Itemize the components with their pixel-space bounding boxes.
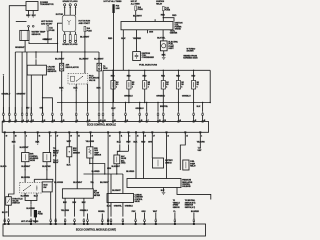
wire crank output 2 (42, 75, 43, 113)
svg-text:11: 11 (121, 135, 123, 137)
svg-text:SENSOR: SENSOR (173, 207, 181, 209)
wire box pin tach (157, 29, 178, 41)
wire BLK/WHT long 108 (100, 132, 110, 222)
svg-text:YEL/GRN: YEL/GRN (86, 141, 95, 143)
svg-text:FUSE: FUSE (165, 9, 171, 11)
ignition relay label (156, 1, 165, 5)
wire connector box ground BLK (97, 71, 102, 103)
svg-text:BLU/WHT: BLU/WHT (55, 58, 65, 60)
connector module pin x193.6 (193, 103, 195, 122)
connector module pin x178.4 (178, 103, 180, 122)
wire relay down RED (161, 11, 166, 22)
wire afm feed YEL (90, 158, 95, 189)
svg-text:ALL TIMES: ALL TIMES (131, 2, 141, 5)
connector module pin x158 (157, 103, 159, 122)
power feed HOT AT ALL TIMES right (131, 0, 141, 5)
connector module pin x31.3 (30, 107, 32, 122)
wire EGR output (21, 162, 31, 183)
svg-text:RED: RED (172, 15, 177, 17)
svg-text:BLU/GRN: BLU/GRN (54, 182, 63, 184)
wire left fuse down (42, 31, 52, 44)
svg-text:19: 19 (70, 135, 72, 137)
svg-text:SENSOR: SENSOR (94, 155, 102, 157)
connector module pin x52.4 (52, 102, 54, 122)
svg-text:BLU/RED: BLU/RED (191, 211, 200, 213)
wire injector bus left end (102, 70, 104, 102)
power feed left HOT IN RUN AND START (41, 21, 53, 25)
svg-text:SPARK PLUGS: SPARK PLUGS (63, 0, 79, 3)
label GRN/BLU pin (135, 108, 144, 110)
connector module pin x3.4 (3, 107, 5, 122)
wire afm out 2 (72, 198, 76, 216)
wire canister out 1 (107, 203, 123, 217)
spark plugs bottom label (62, 43, 78, 46)
wire fuse to box BLK/WHT (133, 11, 143, 22)
wire canister out 2 (123, 203, 134, 217)
svg-text:18: 18 (15, 135, 17, 137)
label BLU/WHT under bus 2 (79, 58, 89, 60)
svg-text:BLK: BLK (73, 87, 78, 89)
svg-text:INJ: INJ (166, 82, 168, 84)
spark plug top 1 (64, 4, 66, 16)
wire distributor feed (57, 23, 63, 52)
svg-text:METER: METER (94, 195, 101, 197)
wire afm BLU/GRN long (54, 132, 63, 222)
connector module pin x113 (112, 103, 114, 122)
exh gas sensor (67, 147, 81, 157)
svg-text:SPARK PLUGS: SPARK PLUGS (62, 43, 78, 46)
svg-text:AND START: AND START (41, 22, 53, 25)
svg-text:BLU/WHT: BLU/WHT (73, 182, 83, 184)
svg-text:TRANSISTOR: TRANSISTOR (40, 3, 54, 6)
wire pr feed 143 (107, 132, 146, 178)
wire stub 102 (98, 211, 106, 219)
svg-text:TRANS: TRANS (175, 28, 182, 31)
connector module pin x76.2 (75, 103, 77, 122)
spark plug bottom 3 (75, 32, 77, 43)
label BLU/WHT under bus 1 (55, 58, 65, 60)
connector module pin x202.6 (202, 103, 204, 122)
wire canister feeds (111, 174, 123, 194)
ignition coil unit box (121, 22, 173, 30)
sensor crank angle sensor (27, 65, 57, 75)
fuel injector 6 (191, 70, 199, 102)
svg-text:RED: RED (108, 38, 113, 40)
svg-text:FUSE: FUSE (138, 9, 144, 11)
label GN (40, 108, 43, 110)
distributor (56, 14, 76, 32)
connector module pin x15.3 (14, 107, 16, 122)
svg-text:HOT AT ALL TIMES: HOT AT ALL TIMES (104, 0, 123, 3)
svg-text:BLU: BLU (34, 196, 39, 198)
fuel injector 1 (111, 70, 119, 102)
svg-text:SWITCH: SWITCH (12, 203, 20, 205)
connector module pin x42.6 (42, 107, 44, 122)
svg-text:GRN/YEL: GRN/YEL (114, 206, 123, 208)
svg-text:FUSE: FUSE (38, 214, 44, 216)
wire BLK/GRN long left (0, 132, 8, 222)
svg-text:ECCS CONTROL MODULE (CONT): ECCS CONTROL MODULE (CONT) (76, 227, 116, 231)
svg-text:GRN/EL: GRN/EL (98, 211, 106, 213)
connector box right (97, 63, 102, 71)
fuse 15A top (135, 6, 144, 11)
electric fuel pump (160, 41, 178, 51)
svg-text:GRN/BLU: GRN/BLU (124, 95, 133, 97)
svg-text:INJ: INJ (181, 82, 183, 84)
wire injector bus (103, 70, 210, 71)
svg-text:BLK: BLK (117, 141, 122, 143)
wire fuel pump ground BLK (162, 51, 167, 57)
svg-text:29: 29 (91, 135, 93, 137)
wire left vertical 5 (26, 52, 28, 113)
svg-text:BLK/WHT: BLK/WHT (112, 190, 121, 192)
ECCS control module cont (3, 224, 206, 236)
wire stub 144 (141, 211, 146, 219)
wire pin 200 TC unit (197, 132, 206, 152)
spark plug top 3 (75, 4, 77, 16)
svg-text:BLK: BLK (35, 141, 40, 143)
wire pin EGR 1 (20, 132, 30, 152)
connector module pin x103 (102, 103, 104, 122)
connector module pin x22.1 (21, 107, 23, 122)
svg-text:GRN/BLU: GRN/BLU (80, 210, 89, 212)
wire ignition bus (15, 51, 99, 52)
svg-text:21: 21 (167, 135, 169, 137)
svg-text:BLK: BLK (67, 165, 72, 167)
wire stub 193 (191, 211, 200, 219)
wire injector bus right end (209, 70, 211, 102)
svg-text:BLK/WHT: BLK/WHT (20, 147, 30, 149)
svg-text:GRN/BLU: GRN/BLU (182, 95, 191, 97)
label GRN/BLU 2 (156, 95, 165, 97)
wire stub 87 (87, 214, 89, 219)
svg-text:FUSE: FUSE (49, 30, 55, 32)
exh gas temp sensor (87, 147, 102, 158)
svg-text:SENSOR: SENSOR (47, 71, 56, 73)
battery relay box (153, 158, 174, 168)
connector module pin x139.7 (139, 103, 141, 122)
svg-text:BLK: BLK (162, 54, 167, 56)
wire air regulator feed (61, 52, 63, 63)
wire stub top (16, 21, 27, 23)
wire crank branch right (43, 98, 53, 102)
svg-text:ECCS CONTROL MODULE: ECCS CONTROL MODULE (87, 124, 116, 127)
connector module pin x61.7 (61, 103, 63, 122)
fuel injector 5 (176, 70, 184, 102)
wire crank output 1 (30, 75, 32, 113)
FICD inner symbol (71, 76, 83, 81)
svg-text:CONDENSER: CONDENSER (142, 57, 155, 59)
fuse left 15A (47, 26, 55, 32)
svg-text:BLU/WHT: BLU/WHT (79, 58, 89, 60)
wire pr feed 136 (133, 132, 138, 178)
wire bus left drop (14, 52, 16, 113)
connector module pin x26.9 (26, 107, 28, 122)
wire GRN branch (29, 39, 58, 44)
note to vehicle speed sensor (173, 200, 181, 209)
svg-text:ROTOR: ROTOR (56, 14, 64, 16)
connector module pin x125.5 (125, 103, 127, 122)
svg-text:VALVE: VALVE (89, 79, 96, 82)
wire stub 155 (153, 211, 158, 219)
svg-text:SOLENOID: SOLENOID (182, 186, 191, 188)
wire pr ground BLK (161, 188, 165, 193)
air regulator (60, 63, 79, 71)
svg-text:GRN/BLU: GRN/BLU (125, 206, 134, 208)
wire relay branch (163, 15, 177, 21)
svg-text:10: 10 (6, 135, 8, 137)
fusible link bottom (34, 210, 44, 217)
svg-text:GRN/BLU: GRN/BLU (1, 94, 10, 96)
svg-text:BLU/RED: BLU/RED (126, 171, 135, 173)
svg-text:GRN: GRN (107, 168, 112, 170)
wire pin 128 down (117, 132, 131, 151)
svg-text:BLK: BLK (97, 87, 102, 89)
wire right fuse down BLU/WHT (80, 32, 90, 74)
wire throttle feed horizontal (34, 179, 53, 183)
label BLK/WHT canister (112, 190, 121, 192)
note turbo (187, 48, 196, 52)
wire box pin to condenser (133, 30, 142, 52)
fuse ignition relay (162, 6, 170, 11)
bottom module pin squares (4, 223, 195, 224)
svg-text:15: 15 (186, 135, 188, 137)
wire stub 174 (173, 211, 176, 219)
note viewed from (183, 55, 198, 59)
wire stub 135 (132, 211, 137, 219)
svg-text:SWITCH (A T): SWITCH (A T) (185, 206, 196, 209)
svg-text:BLK/Y: BLK/Y (2, 212, 8, 214)
svg-text:SHOWN: SHOWN (187, 50, 195, 52)
wire AAC output (112, 164, 121, 174)
wire bold fuse to module (35, 217, 37, 223)
AAC valve (114, 155, 127, 165)
power label HOT AT ALL TIMES bottom (21, 220, 39, 223)
wire throttle to module (30, 206, 32, 216)
svg-text:GRN/BLU: GRN/BLU (156, 95, 165, 97)
power feed right HOT IN RUN AND START (79, 20, 91, 24)
svg-text:BLK/WHT: BLK/WHT (133, 15, 143, 17)
svg-text:BLK/WHT: BLK/WHT (100, 182, 110, 184)
wire pin BLK 14 (9, 132, 17, 196)
fuel injector 3 (143, 70, 151, 102)
fuel pump relay (183, 160, 197, 170)
svg-text:BLU/RED: BLU/RED (92, 171, 101, 173)
ground pressure regulator (162, 192, 166, 194)
svg-text:FUSE: FUSE (87, 30, 93, 32)
wire fusible link down RED (108, 13, 114, 103)
svg-text:25: 25 (144, 135, 146, 137)
fuel injector 2 (127, 70, 135, 102)
module bottom pin squares (4, 132, 201, 133)
AIV control solenoid valve (43, 153, 51, 162)
distributor inner (67, 20, 70, 25)
wire pr out right (177, 188, 211, 200)
svg-text:AND START: AND START (79, 22, 91, 25)
wire pin AIV (49, 132, 51, 152)
svg-text:16: 16 (39, 135, 41, 137)
spark plug top 2 (69, 4, 71, 16)
note tachometer left (103, 66, 108, 70)
note left column (53, 148, 60, 164)
wire air regulator ground BLK (59, 71, 64, 103)
throttle valve switch dashed box (20, 182, 42, 193)
svg-text:YEL/GRN: YEL/GRN (61, 210, 70, 212)
wire exh gas sensor ground (67, 157, 72, 167)
svg-text:GRN/WHT: GRN/WHT (15, 47, 25, 49)
wire afm feed 1 (67, 132, 72, 147)
connector transistor lead 1 (28, 25, 30, 30)
ignition coil unit text (175, 22, 184, 30)
wide box tick (154, 19, 156, 21)
svg-text:GRN/WHT: GRN/WHT (42, 39, 52, 41)
svg-text:GRN: GRN (149, 32, 154, 34)
svg-text:BLK/G: BLK/G (0, 166, 6, 168)
svg-text:ASSY: ASSY (168, 47, 174, 50)
svg-text:INJ: INJ (132, 82, 134, 84)
wire AIV output (42, 162, 51, 180)
svg-text:BLK/GRN: BLK/GRN (21, 177, 30, 179)
pin numbers module bottom (6, 134, 203, 137)
connector transistor lead 2 (32, 25, 34, 27)
svg-text:REGULATOR: REGULATOR (66, 66, 80, 69)
svg-text:GRN/WHT: GRN/WHT (16, 94, 26, 96)
label BLK pin right (197, 106, 201, 108)
wire battery box feed (148, 132, 153, 158)
wire fuel pump relay feed (180, 132, 185, 170)
svg-text:BLK/PNK: BLK/PNK (42, 166, 51, 168)
spark plugs top label (63, 0, 79, 3)
wire transistor lead BLK (32, 11, 37, 18)
label GRN/BLU 1 (124, 95, 133, 97)
svg-text:27: 27 (57, 135, 59, 137)
svg-text:55: 55 (78, 135, 80, 137)
EGR control solenoid valve (22, 153, 39, 163)
connector module pin x99 (98, 103, 100, 122)
carbon canister control solenoid valve (107, 193, 143, 203)
wire idle box down (50, 192, 52, 219)
spark plug bottom 2 (69, 32, 71, 43)
svg-text:GRN: GRN (148, 141, 153, 143)
wire power transistor to left bus (9, 6, 26, 114)
svg-text:HARNESS SIDE: HARNESS SIDE (183, 57, 198, 60)
svg-text:INJ: INJ (197, 82, 199, 84)
fuse right 15A (84, 26, 92, 32)
label BLU/WHT under bus 3 (94, 58, 104, 60)
fuel injectors label (139, 65, 158, 67)
wire pin BLK 37 (35, 132, 40, 145)
svg-text:GRN/BLU: GRN/BLU (135, 108, 144, 110)
svg-text:BRN/YEL: BRN/YEL (160, 106, 169, 108)
svg-text:23: 23 (109, 135, 111, 137)
throttle switch contacts (23, 185, 37, 191)
condenser (133, 52, 155, 61)
labels under dashed box (21, 196, 39, 198)
throttle valve switch unit (6, 197, 24, 206)
svg-text:BLK: BLK (133, 141, 138, 143)
svg-text:FUEL INJECTORS: FUEL INJECTORS (139, 65, 158, 67)
label B/U (26, 108, 30, 110)
wire crank angle sensor feed (35, 52, 37, 65)
power feed HOT AT ALL TIMES left (104, 0, 123, 3)
wire exh temp output (89, 158, 105, 174)
svg-text:INJ: INJ (148, 82, 150, 84)
note to neutral switch (185, 199, 196, 209)
svg-text:BLU/WHT: BLU/WHT (80, 37, 90, 39)
idle switch box (42, 182, 52, 192)
label GRN/BLU 3 (182, 95, 191, 97)
label BRN/YEL pin (160, 106, 169, 108)
svg-text:YEL/RED: YEL/RED (133, 38, 142, 40)
wire connector box feed (98, 52, 100, 63)
wire water temp output GRN/WHT (15, 41, 25, 53)
svg-text:SENSOR: SENSOR (32, 34, 41, 36)
svg-text:RELAY: RELAY (156, 2, 163, 5)
wire throttle unit ground (8, 205, 10, 216)
wire afm out 1 (61, 198, 70, 216)
connectors into bottom module (4, 219, 195, 225)
wire throttle outputs bracket (25, 193, 37, 210)
wire pr feed 166 (166, 132, 168, 178)
svg-text:BLK: BLK (59, 87, 64, 89)
svg-text:BLK: BLK (12, 141, 17, 143)
air flow meter (62, 189, 100, 198)
wire pin AAC (117, 132, 122, 155)
wire afm feed BLU/WHT (73, 132, 83, 189)
wire box pin stub GRN (148, 30, 154, 34)
svg-text:BLK/YEL: BLK/YEL (157, 38, 166, 40)
svg-text:BLK: BLK (32, 15, 37, 17)
wire FICD ground BLK (73, 84, 78, 103)
fuel injector 4 (161, 70, 169, 102)
wire afm out 3 (80, 198, 89, 216)
wire box pin BLK to injector bus (121, 30, 126, 71)
svg-text:UNIT): UNIT) (121, 163, 126, 165)
wire left vertical GRN/WHT (16, 52, 26, 113)
connector module pin x163.3 (162, 103, 164, 122)
FICD solenoid valve box (68, 73, 100, 84)
transistor power transistor unit (26, 2, 54, 11)
svg-text:BLU: BLU (26, 15, 31, 17)
svg-text:(A T): (A T) (53, 154, 57, 157)
svg-text:RED: RED (161, 15, 166, 17)
wire ground bus (57, 102, 211, 103)
wire transistor lead BLU (26, 11, 31, 18)
svg-text:YEL/GRN: YEL/GRN (197, 141, 206, 143)
svg-text:SWITCH: SWITCH (165, 162, 172, 164)
wire FICD output 2 (87, 84, 89, 103)
pressure regulator control box (127, 179, 193, 189)
svg-text:OMETER: OMETER (170, 33, 178, 35)
sensor water temp sensor (20, 30, 46, 40)
svg-text:BLK: BLK (121, 38, 126, 40)
svg-text:GRN: GRN (141, 211, 146, 213)
ground fuel pump (162, 58, 166, 60)
svg-text:37: 37 (153, 135, 155, 137)
spark plug bottom 1 (64, 32, 66, 43)
svg-text:BLK/WHT: BLK/WHT (21, 166, 31, 168)
svg-text:RELAY: RELAY (190, 165, 196, 168)
label WHT pin (111, 108, 116, 110)
connector module pin x87.6 (87, 103, 89, 122)
wire canister horizontal (84, 171, 135, 175)
svg-text:RED: RED (141, 141, 146, 143)
connector module pin x9.3 (8, 107, 10, 122)
pin numbers module top (4, 119, 205, 122)
wire exh gas temp feed (86, 132, 95, 147)
fusible link (112, 4, 120, 13)
connector module pin x146.7 (146, 103, 148, 122)
